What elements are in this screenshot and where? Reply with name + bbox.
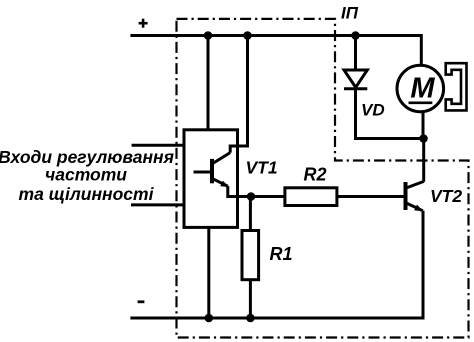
- diode VD: [344, 70, 367, 89]
- node top rail / diode VD: [351, 31, 360, 40]
- svg-text:M: M: [410, 72, 435, 104]
- svg-text:R1: R1: [270, 244, 293, 264]
- wire diode cathode return: [356, 89, 424, 139]
- node top rail / VT1 collector-feed: [204, 31, 213, 40]
- wire VT2 collector riser: [422, 139, 425, 182]
- label M: [409, 72, 436, 104]
- wire VT1 emitter to node: [228, 186, 251, 196]
- svg-text:VD: VD: [361, 101, 385, 120]
- wire input 2 (duty cycle): [131, 203, 184, 206]
- frame (dash-dot boundary of controller, notched at top-right): [177, 19, 469, 338]
- node bottom rail / box: [205, 314, 214, 323]
- wire node to R2: [251, 195, 285, 198]
- transistor VT2: [406, 181, 424, 211]
- + terminal: [139, 19, 148, 28]
- op-amp box U1 (control unit containing VT1): [184, 130, 238, 228]
- transistor VT1: [194, 153, 231, 187]
- wire box to bottom rail: [207, 227, 210, 318]
- svg-text:VT2: VT2: [430, 186, 462, 206]
- - terminal: [138, 300, 145, 303]
- node bottom rail / R1: [246, 314, 255, 323]
- wire diode anode: [354, 36, 357, 71]
- wire box supply drop: [207, 36, 210, 130]
- label inputs text: [0, 147, 174, 204]
- motor M1: [397, 65, 444, 112]
- wire VT1 collector feed: [230, 36, 247, 153]
- svg-text:R2: R2: [304, 165, 327, 185]
- svg-text:та щілинності: та щілинності: [19, 184, 155, 204]
- svg-text:частоти: частоти: [45, 164, 127, 184]
- wire node to R1: [249, 197, 252, 231]
- wire motor to node: [422, 111, 425, 139]
- resistor R1: [242, 231, 259, 280]
- wire input 1 (frequency): [132, 144, 184, 147]
- wire R1 to bottom rail: [249, 280, 252, 318]
- wire R2 to VT2 base: [337, 195, 404, 198]
- node emitter/R1/R2: [247, 192, 256, 201]
- svg-text:ІП: ІП: [341, 4, 359, 23]
- node top rail / internal feed: [243, 31, 252, 40]
- resistor R2: [285, 188, 337, 206]
- node diode/motor/VT2: [419, 134, 428, 143]
- motor load bracket: [446, 63, 467, 110]
- svg-text:VT1: VT1: [246, 157, 278, 177]
- wire top rail (+): [130, 36, 421, 66]
- wire bottom rail (-): [130, 211, 423, 318]
